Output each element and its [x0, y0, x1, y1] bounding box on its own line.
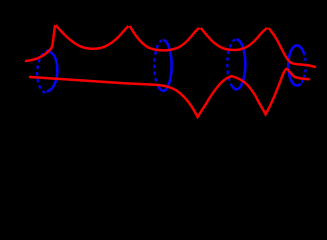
surface bottom boundary (red, long line then two V-dips with arches) — [30, 69, 309, 117]
curve alpha1 (leftmost blue ellipse, dashed back) — [36, 50, 58, 93]
curve alpha3 (third blue ellipse, dashed back) — [227, 39, 245, 89]
apex thinning (peaks fade at tips) — [54, 22, 270, 28]
curve alpha4 (rightmost blue ellipse, dashed back) — [288, 45, 306, 85]
curve alpha2 (second blue ellipse, dashed back) — [154, 40, 171, 91]
surface top boundary (red, four sharp peaks) — [26, 25, 315, 68]
